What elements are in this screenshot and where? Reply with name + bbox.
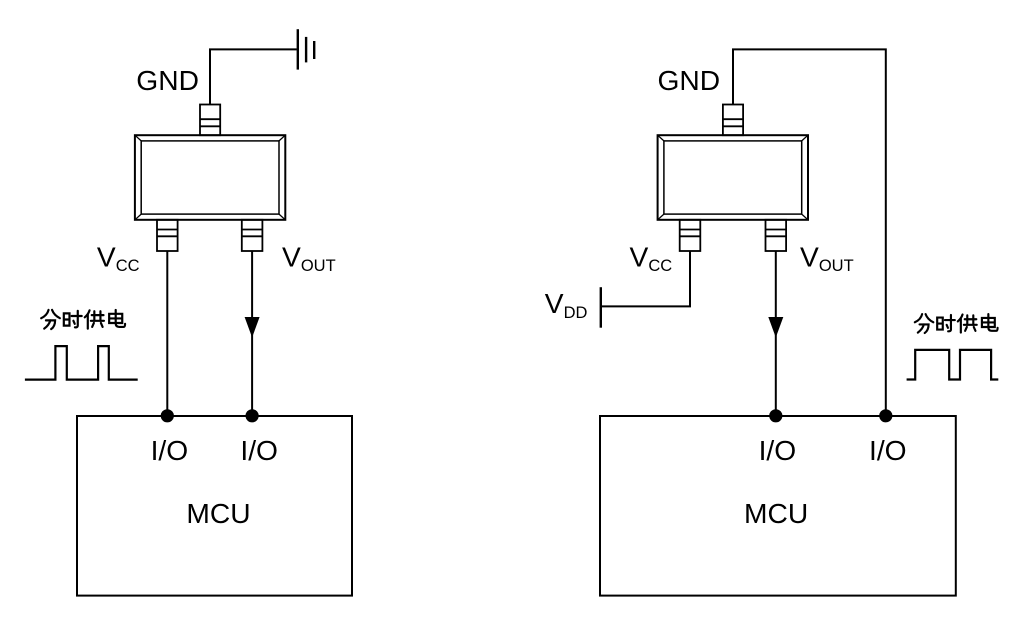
- arrow: VOUT signal direction (down, right circuit): [768, 317, 783, 338]
- wire: U1 GND pin up and over to ground: [210, 49, 297, 105]
- ground: [298, 29, 314, 69]
- pin VOUT (U2 bottom-right): [766, 220, 787, 251]
- svg-text:MCU: MCU: [744, 497, 808, 529]
- wire: U2 VCC pin down and left to VDD terminal: [601, 251, 690, 306]
- junction node: VOUT at left MCU: [246, 409, 259, 422]
- MCU box (left): [77, 416, 352, 596]
- pin VOUT (U1 bottom-right): [242, 220, 263, 251]
- label 分时供电 (left): [41, 310, 125, 329]
- svg-text:GND: GND: [136, 64, 199, 96]
- label 分时供电 (right): [915, 314, 998, 333]
- MCU box (right): [600, 416, 956, 596]
- svg-text:I/O: I/O: [869, 434, 907, 466]
- waveform: time-shared supply pulses (left, narrow duty): [25, 346, 138, 380]
- pin VCC (U1 bottom-left): [157, 220, 178, 251]
- pin GND (U2 top): [723, 105, 743, 136]
- waveform: time-shared supply pulses (right, wide duty): [907, 350, 999, 380]
- power terminal VDD (bar): [600, 287, 602, 328]
- wire: U2 VOUT pin down to MCU I/O: [775, 251, 777, 416]
- sensor U1 SOT-23 body: [135, 135, 285, 220]
- svg-text:I/O: I/O: [151, 434, 189, 466]
- wire: U1 VOUT pin down to MCU I/O: [251, 251, 253, 416]
- junction node: GND return at right MCU: [879, 409, 892, 422]
- wire: U2 GND pin up, over and down to MCU I/O: [733, 49, 886, 415]
- svg-text:I/O: I/O: [759, 434, 797, 466]
- junction node: VOUT at right MCU: [769, 409, 782, 422]
- svg-text:GND: GND: [658, 64, 721, 96]
- sensor U2 SOT-23 body: [658, 135, 808, 220]
- svg-text:I/O: I/O: [240, 434, 278, 466]
- pin GND (U1 top): [200, 105, 220, 136]
- pin VCC (U2 bottom-left): [680, 220, 701, 251]
- arrow: VOUT signal direction (down): [245, 317, 260, 338]
- svg-text:MCU: MCU: [186, 497, 250, 529]
- wire: U1 VCC pin down to MCU I/O: [166, 251, 168, 416]
- junction node: VCC at left MCU: [161, 409, 174, 422]
